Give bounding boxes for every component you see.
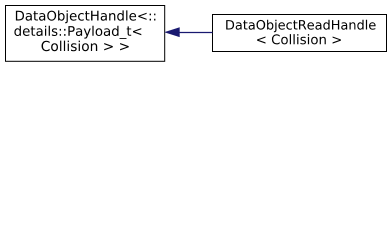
node: base class DataObjectHandle<::details::Payload_t<Collision>> box (6, 6, 165, 62)
inheritance graph (0, 0, 392, 67)
inheritance arrowhead (165, 28, 179, 37)
label line 2: < Collision > (257, 34, 341, 44)
node: derived class DataObjectReadHandle<Collision> box (213, 15, 387, 52)
label line 3: Collision > > (42, 41, 129, 52)
label line 1: DataObjectReadHandle (226, 20, 375, 33)
label line 2: details::Payload_t< (14, 26, 141, 39)
wire: inheritance edge shaft (179, 32, 212, 34)
label line 1: DataObjectHandle<:: (16, 10, 156, 23)
